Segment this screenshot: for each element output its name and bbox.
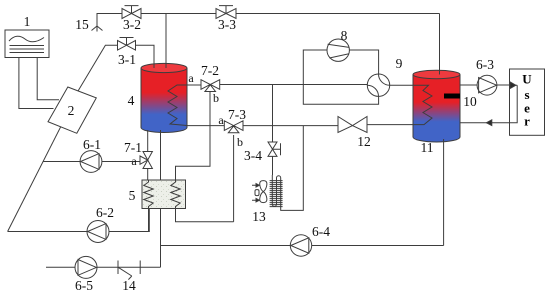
vent symbol 15 [92, 26, 103, 32]
valve 3-1 [118, 38, 136, 51]
svg-text:3-2: 3-2 [123, 17, 141, 32]
wire vertical to 3-4 [272, 85, 274, 143]
svg-text:a: a [188, 71, 194, 85]
pump 6-1 [80, 151, 102, 173]
solar collector 1 [5, 30, 49, 58]
wire 9 to tank11 [390, 84, 413, 86]
wire tank11 top pipe stub over ellipse [439, 69, 441, 75]
wire 7-1 to HX5 [147, 169, 149, 181]
wire tank4 coil exit to 7-3 a [187, 125, 224, 127]
pump 6-3 [477, 75, 497, 95]
svg-text:9: 9 [396, 56, 403, 71]
svg-text:8: 8 [341, 28, 348, 43]
wire 7-2 to valve 9 [220, 84, 368, 86]
wire HX5 left coil bottom to 6-2 line [148, 209, 150, 232]
wire drop to tank4 top [165, 14, 167, 69]
wire 6-2 line [8, 209, 150, 232]
svg-text:3-1: 3-1 [118, 52, 136, 67]
user supply arrow [510, 82, 516, 89]
finned coil 13 serpentine tube [272, 126, 303, 211]
four-way valve 9 [367, 74, 389, 96]
svg-text:U: U [522, 72, 532, 87]
svg-text:2: 2 [68, 103, 75, 118]
svg-text:15: 15 [75, 17, 89, 32]
svg-text:6-2: 6-2 [96, 205, 114, 220]
wire tank11 right to pump 6-3 and user [460, 84, 510, 86]
svg-text:6-4: 6-4 [312, 224, 330, 239]
wire tank11 bottom pipe [443, 139, 445, 246]
valve 3-3 [216, 6, 236, 19]
fan 13 [252, 181, 267, 203]
pump 6-4 [290, 235, 311, 256]
electric heater 10 [444, 94, 460, 99]
wire valve 12 to tank 11 [367, 124, 413, 126]
svg-text:b: b [213, 91, 219, 105]
wire 3-1 to tank4 top [136, 45, 155, 68]
wire tank4 top pipe stubs over ellipse [154, 61, 166, 68]
wire drop to tank11 top [439, 14, 441, 75]
pump 6-5 [75, 256, 97, 278]
user return arrow [486, 120, 491, 126]
wire pump 6-1 line [43, 161, 140, 163]
svg-text:b: b [237, 135, 243, 149]
compressor loop wires [303, 50, 378, 104]
user text [522, 72, 532, 129]
svg-text:6-5: 6-5 [75, 278, 93, 293]
pump 6-2 [87, 221, 109, 243]
svg-text:14: 14 [122, 278, 136, 293]
wire bottom bus [161, 245, 444, 247]
valve 3-2 [122, 6, 141, 19]
heat exchanger 5 [142, 180, 186, 209]
wire collector left leg [19, 58, 54, 109]
svg-text:13: 13 [252, 209, 266, 224]
three-way valve 7-1 [140, 152, 152, 169]
wire HX5 right coil top to 7-2 b [176, 92, 211, 181]
user box [510, 69, 545, 135]
wire HX5 right coil bottom to 7-3 b [176, 209, 234, 222]
tank 11 [413, 70, 460, 142]
valve 12 [338, 117, 367, 133]
svg-text:a: a [218, 113, 224, 127]
svg-text:10: 10 [463, 94, 477, 109]
svg-text:12: 12 [357, 134, 371, 149]
wire 3-4 to coil 13 [272, 156, 274, 175]
svg-text:r: r [524, 114, 530, 129]
wire tank4 bottom left pipe [147, 130, 149, 152]
wire top bus [141, 13, 440, 15]
wire 3-2 left leg to vent [97, 14, 122, 27]
wire 2 to valve 3-1 [78, 45, 117, 91]
wire collector right leg [37, 58, 59, 100]
coil HX5 left [144, 180, 153, 209]
coil in tank 4 [168, 85, 187, 126]
three-way valve 7-2 [201, 80, 220, 92]
wire tank4 coil to 7-2 a [187, 84, 201, 86]
svg-text:a: a [131, 154, 137, 168]
svg-text:6-1: 6-1 [83, 137, 101, 152]
compressor 8 [327, 39, 349, 61]
wire tank4 bottom center pipe [160, 130, 162, 267]
svg-text:4: 4 [128, 93, 135, 108]
tank 4 [141, 63, 187, 132]
svg-text:6-3: 6-3 [476, 57, 494, 72]
wire 6-5 line [46, 266, 161, 268]
coil in tank 11 [413, 85, 432, 124]
check valve 14 [118, 261, 140, 280]
expansion unit 2 [48, 87, 96, 133]
wire user internal [460, 85, 517, 123]
svg-text:7-1: 7-1 [124, 140, 142, 155]
wire left diagonal [8, 127, 61, 232]
valve 3-4 [268, 142, 281, 156]
svg-text:5: 5 [129, 188, 136, 203]
wire 7-3 b vertical [233, 135, 235, 222]
coil HX5 right [171, 180, 180, 209]
svg-text:7-2: 7-2 [201, 63, 219, 78]
wire 7-3 to valve 12 [243, 125, 338, 127]
svg-text:11: 11 [421, 140, 434, 155]
three-way valve 7-3 [224, 121, 243, 133]
svg-text:7-3: 7-3 [228, 107, 246, 122]
finned coil 13 fins [270, 181, 283, 207]
svg-text:3-3: 3-3 [218, 17, 236, 32]
svg-text:1: 1 [24, 14, 31, 29]
svg-text:3-4: 3-4 [244, 148, 262, 163]
